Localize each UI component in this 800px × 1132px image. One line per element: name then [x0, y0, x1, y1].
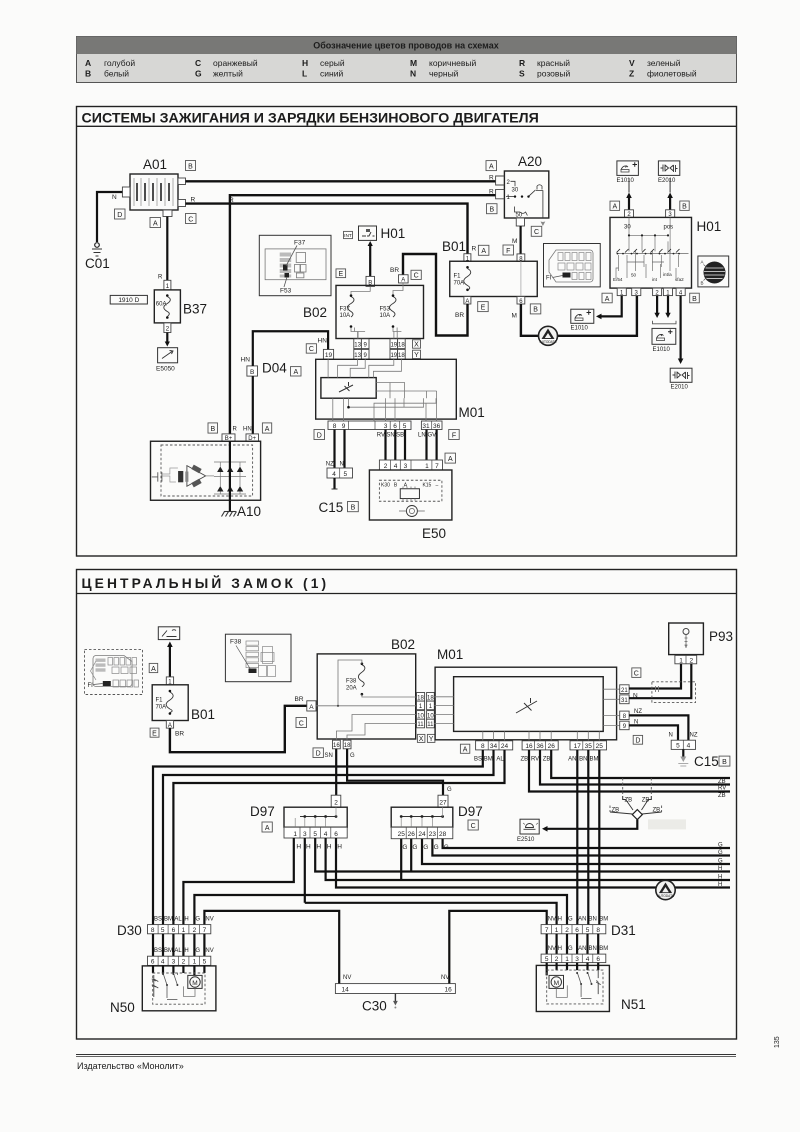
wire H: to D31-1: [305, 903, 557, 925]
svg-text:NV: NV: [548, 917, 556, 923]
svg-text:C01: C01: [85, 256, 110, 271]
ground (A10): [222, 512, 237, 517]
svg-text:17: 17: [574, 743, 582, 750]
svg-text:голубой: голубой: [104, 58, 135, 68]
svg-text:6: 6: [334, 831, 338, 838]
svg-text:2: 2: [193, 927, 197, 934]
fuse box B01 (engine bay): [442, 239, 541, 320]
fuse B01 (bottom section): [149, 663, 215, 737]
svg-text:N: N: [112, 194, 117, 201]
svg-text:E2510: E2510: [517, 837, 535, 843]
svg-text:6: 6: [575, 927, 579, 934]
in-line joint (dashed): [652, 682, 696, 703]
svg-text:G: G: [412, 844, 417, 851]
connector D30: [117, 917, 214, 966]
svg-text:A01: A01: [143, 157, 167, 172]
svg-text:D30: D30: [117, 923, 142, 938]
svg-text:H: H: [184, 917, 188, 923]
svg-text:M: M: [554, 980, 559, 987]
wire N to ground C01: [97, 192, 122, 242]
svg-text:B02: B02: [391, 637, 415, 652]
svg-text:1: 1: [425, 463, 429, 470]
svg-text:B37: B37: [183, 302, 207, 317]
svg-text:E: E: [338, 271, 343, 278]
svg-text:7: 7: [203, 927, 207, 934]
svg-text:A: A: [605, 296, 610, 303]
svg-text:R: R: [489, 189, 494, 196]
svg-text:G: G: [195, 69, 202, 79]
svg-text:5: 5: [203, 959, 207, 966]
svg-text:11: 11: [417, 722, 424, 728]
svg-text:16: 16: [445, 986, 453, 993]
svg-text:16: 16: [333, 743, 340, 749]
svg-text:1: 1: [293, 831, 297, 838]
svg-text:H: H: [718, 882, 722, 888]
door lock actuator N50: [110, 965, 216, 1015]
svg-text:26: 26: [408, 831, 416, 838]
svg-text:B: B: [85, 69, 91, 79]
fuse location inset F38: [225, 634, 291, 682]
svg-text:BM: BM: [590, 757, 599, 763]
svg-text:P93: P93: [709, 629, 733, 644]
svg-text:ZB: ZB: [653, 808, 661, 814]
fuse box B02 (bottom): [295, 637, 417, 740]
svg-text:8: 8: [481, 743, 485, 750]
svg-text:BR: BR: [295, 696, 304, 703]
svg-text:BN: BN: [589, 946, 597, 952]
svg-text:C15: C15: [319, 500, 344, 515]
battery symbol E1010 (mid): [571, 309, 594, 331]
svg-text:SB: SB: [396, 433, 404, 439]
svg-text:H: H: [302, 58, 308, 68]
svg-text:G: G: [195, 948, 200, 954]
svg-text:4: 4: [332, 471, 336, 478]
svg-text:NZ: NZ: [690, 733, 698, 739]
pin B (right top): [178, 178, 186, 185]
svg-text:RV: RV: [718, 786, 726, 792]
svg-text:H: H: [184, 948, 188, 954]
svg-text:4: 4: [161, 959, 165, 966]
wire ZB bus 2: [551, 750, 730, 778]
svg-text:18: 18: [417, 695, 424, 701]
svg-text:G: G: [718, 850, 723, 856]
svg-text:B: B: [722, 759, 727, 766]
svg-text:–: –: [436, 483, 439, 489]
svg-text:D04: D04: [262, 361, 287, 376]
svg-text:H: H: [337, 844, 342, 851]
B02 bottom pins 16 18: [313, 740, 355, 759]
svg-text:G: G: [195, 917, 200, 923]
wire G: B02-18 to D97C-27: [347, 749, 443, 795]
svg-text:1: 1: [555, 927, 559, 934]
svg-text:pos: pos: [664, 225, 674, 231]
svg-text:N: N: [634, 719, 638, 725]
svg-text:H: H: [316, 844, 321, 851]
svg-text:A: A: [612, 204, 617, 211]
svg-text:A: A: [701, 260, 704, 265]
svg-text:36: 36: [536, 743, 544, 750]
wire AN BN BM to D31: [576, 750, 578, 925]
pin C (right bottom): [178, 200, 186, 207]
svg-text:E/54: E/54: [613, 277, 623, 282]
door lock actuator N51: [536, 963, 645, 1012]
svg-text:A: A: [448, 456, 453, 463]
svg-text:BR: BR: [175, 731, 184, 738]
svg-text:K30: K30: [381, 483, 390, 489]
connector D04: [241, 338, 334, 377]
svg-text:6: 6: [151, 959, 155, 966]
wire NV: D30-7 to C30-14: [204, 911, 339, 984]
svg-text:25: 25: [398, 831, 406, 838]
wire B: A01 to A20 upper pin: [186, 180, 496, 182]
svg-text:G: G: [718, 842, 723, 848]
svg-text:G: G: [402, 844, 407, 851]
wire BR: B01 pin A to B02 pin A: [403, 254, 468, 336]
svg-text:20A: 20A: [346, 686, 357, 692]
svg-text:2: 2: [555, 956, 559, 963]
H bus wires: [315, 838, 730, 872]
svg-text:3: 3: [172, 959, 176, 966]
svg-text:Z: Z: [629, 69, 634, 79]
svg-text:фиолетовый: фиолетовый: [647, 69, 697, 79]
wires M01 to E50: [384, 430, 386, 461]
svg-text:E5050: E5050: [156, 366, 175, 373]
stator: [187, 466, 206, 487]
ignition block M01 (top): [291, 359, 485, 421]
connector C30: [335, 975, 455, 1014]
G bus wires: [443, 839, 730, 848]
svg-text:H: H: [718, 866, 722, 872]
svg-text:B: B: [351, 505, 356, 512]
svg-text:2: 2: [565, 927, 569, 934]
svg-text:A: A: [85, 58, 91, 68]
svg-text:R: R: [233, 427, 238, 433]
svg-text:BM: BM: [599, 946, 608, 952]
svg-text:8: 8: [151, 927, 155, 934]
svg-text:10A: 10A: [340, 313, 351, 319]
ground C01: [85, 243, 110, 271]
svg-text:NZ: NZ: [634, 709, 642, 715]
wires P93 to M01 pins 21/31: [629, 664, 681, 689]
svg-text:M: M: [410, 58, 417, 68]
svg-text:19: 19: [390, 342, 397, 348]
svg-text:H01: H01: [381, 226, 406, 241]
svg-text:D97: D97: [250, 804, 275, 819]
svg-text:25: 25: [596, 743, 604, 750]
diode bridge: [217, 467, 243, 492]
svg-text:D: D: [316, 751, 321, 758]
svg-text:F1: F1: [156, 698, 164, 704]
svg-text:ZB: ZB: [521, 757, 529, 763]
svg-text:A: A: [489, 163, 494, 170]
svg-text:ЦЕНТРАЛЬНЫЙ ЗАМОК (1): ЦЕНТРАЛЬНЫЙ ЗАМОК (1): [82, 574, 330, 591]
fuse location inset (F37/F53): [259, 235, 331, 295]
svg-text:5: 5: [403, 423, 407, 430]
lamp symbol E2010 (top): [658, 161, 680, 184]
svg-text:1: 1: [193, 959, 197, 966]
wire BM: M01-34 to D30-5: [163, 750, 494, 925]
svg-text:1: 1: [565, 956, 569, 963]
svg-text:3: 3: [384, 423, 388, 430]
svg-text:GV: GV: [428, 433, 437, 439]
svg-text:B: B: [682, 204, 687, 211]
svg-text:зеленый: зеленый: [647, 58, 681, 68]
svg-text:int: int: [652, 277, 658, 282]
svg-text:C: C: [195, 58, 201, 68]
connector columns B02/M01 (18 1 10 11): [417, 693, 435, 743]
svg-text:5: 5: [545, 956, 549, 963]
regulator / brushes: [178, 471, 183, 482]
connector D97 C: [391, 795, 483, 851]
courtesy lamp E2510: [517, 819, 539, 843]
svg-text:D: D: [117, 212, 122, 219]
svg-text:M: M: [512, 313, 517, 320]
svg-text:F38: F38: [346, 679, 357, 685]
svg-text:10: 10: [417, 713, 424, 719]
svg-text:19: 19: [390, 353, 397, 359]
svg-text:G: G: [568, 917, 573, 923]
svg-text:2: 2: [182, 959, 186, 966]
wire AL: M01-24 to D30-6: [173, 750, 504, 925]
svg-text:NV: NV: [205, 948, 213, 954]
svg-text:10: 10: [427, 713, 434, 719]
svg-text:F: F: [506, 248, 510, 255]
svg-text:M: M: [192, 980, 197, 987]
svg-text:K15: K15: [422, 483, 431, 489]
svg-text:D: D: [635, 738, 640, 745]
svg-text:1: 1: [679, 657, 683, 664]
svg-text:оранжевый: оранжевый: [213, 58, 258, 68]
svg-text:6: 6: [393, 423, 397, 430]
svg-text:LN: LN: [418, 433, 426, 439]
svg-text:16: 16: [525, 743, 533, 750]
svg-text:8: 8: [333, 423, 337, 430]
svg-text:D: D: [317, 432, 322, 439]
svg-text:18: 18: [398, 342, 405, 348]
svg-text:BN: BN: [579, 757, 587, 763]
svg-text:34: 34: [490, 743, 498, 750]
svg-text:21: 21: [621, 688, 628, 694]
svg-text:19: 19: [325, 352, 333, 359]
svg-text:HN: HN: [243, 427, 252, 433]
svg-text:INT: INT: [344, 233, 352, 239]
svg-text:A: A: [309, 704, 314, 711]
svg-text:BM: BM: [164, 917, 173, 923]
svg-text:NV: NV: [205, 917, 213, 923]
svg-text:BR: BR: [390, 267, 399, 274]
relay box inset (FI): [544, 244, 601, 287]
key switch P93: [669, 623, 733, 664]
svg-text:BS: BS: [154, 917, 162, 923]
svg-text:X: X: [414, 342, 419, 349]
svg-text:N: N: [669, 733, 673, 739]
svg-text:B: B: [489, 207, 494, 214]
svg-text:B02: B02: [303, 305, 327, 320]
wire BS: M01-8 to D30-8: [153, 750, 483, 925]
logo stamp on wire: [539, 326, 558, 345]
svg-text:AN: AN: [578, 917, 586, 923]
svg-text:E2010: E2010: [671, 385, 689, 391]
svg-text:A: A: [151, 666, 156, 673]
svg-text:B01: B01: [191, 707, 215, 722]
lamp symbol E2010 (lower): [670, 368, 692, 390]
wire B+ through A10 to ground: [229, 441, 231, 511]
svg-text:5: 5: [343, 471, 347, 478]
svg-text:11: 11: [427, 722, 434, 728]
svg-text:1: 1: [166, 283, 170, 290]
svg-text:E1010: E1010: [617, 178, 635, 184]
svg-text:9: 9: [342, 423, 346, 430]
arrow H01 pin4 down to E2010: [679, 296, 681, 360]
svg-text:A: A: [463, 747, 468, 754]
svg-text:50: 50: [631, 273, 637, 278]
fuse box B02 (top): [303, 267, 424, 339]
wire NV: C30-16 to D31-7: [449, 911, 546, 984]
ZB joint network: [610, 778, 686, 829]
svg-text:G: G: [447, 787, 452, 793]
svg-text:F38: F38: [230, 639, 242, 646]
wire R: alternator riser to A20 lower pin: [230, 195, 496, 434]
connector C15 (bottom): [671, 740, 730, 769]
svg-text:H01: H01: [697, 219, 722, 234]
wires M01 pins 8/9 to C15: [629, 715, 688, 740]
svg-text:F37: F37: [294, 240, 306, 247]
wire G long: D30-2 to D31-2: [194, 895, 567, 925]
wire HN: A10 D+ up through D04 to M01 pin 19: [253, 331, 328, 434]
boxed letter B: [186, 161, 196, 171]
svg-text:30: 30: [624, 225, 631, 231]
svg-text:NV: NV: [548, 946, 556, 952]
svg-text:4: 4: [586, 956, 590, 963]
svg-text:Обозначение цветов проводов на: Обозначение цветов проводов на схемах: [313, 41, 499, 51]
svg-text:Издательство «Монолит»: Издательство «Монолит»: [77, 1061, 184, 1071]
battery A01: [112, 157, 196, 228]
svg-text:розовый: розовый: [537, 69, 571, 79]
instrument panel switch H01: [602, 201, 721, 303]
arrows H01 pins 2,3 up: [628, 196, 630, 210]
svg-text:60A: 60A: [156, 302, 167, 308]
svg-text:G: G: [423, 844, 428, 851]
battery symbol E1010 (lower): [652, 328, 676, 353]
svg-text:10A: 10A: [380, 313, 391, 319]
svg-text:X: X: [419, 736, 424, 743]
svg-text:NV: NV: [441, 975, 449, 981]
svg-text:4: 4: [687, 743, 691, 750]
svg-text:26: 26: [548, 743, 556, 750]
svg-text:5: 5: [586, 927, 590, 934]
wire H01 pin1 to E1010 arrow: [599, 296, 622, 317]
svg-text:BM: BM: [484, 757, 493, 763]
svg-text:СИСТЕМЫ ЗАЖИГАНИЯ И ЗАРЯДКИ БЕ: СИСТЕМЫ ЗАЖИГАНИЯ И ЗАРЯДКИ БЕНЗИНОВОГО …: [82, 111, 539, 127]
svg-text:E2010: E2010: [658, 178, 676, 184]
wire arrow B02 to relay: [369, 245, 371, 277]
svg-text:AL: AL: [174, 948, 182, 954]
svg-text:C: C: [188, 216, 193, 223]
boxed letter C: [186, 214, 197, 224]
svg-text:L: L: [302, 69, 307, 79]
wire BR: B01 to B02 (bottom): [170, 706, 307, 752]
svg-text:4: 4: [394, 463, 398, 470]
svg-text:A: A: [265, 426, 270, 433]
svg-text:F: F: [452, 432, 456, 439]
boxed letter A: [150, 218, 161, 228]
intermittent relay symbol H01 (small): [344, 226, 406, 241]
svg-text:1: 1: [182, 927, 186, 934]
svg-text:серый: серый: [320, 58, 345, 68]
svg-text:31: 31: [621, 698, 628, 704]
svg-text:24: 24: [418, 831, 426, 838]
wire B37 to E5050: [166, 333, 168, 344]
svg-text:желтый: желтый: [213, 69, 243, 79]
svg-text:G: G: [718, 858, 723, 864]
svg-text:14: 14: [342, 986, 350, 993]
svg-text:H: H: [718, 874, 722, 880]
svg-text:2: 2: [384, 463, 388, 470]
svg-text:NZ: NZ: [326, 462, 334, 468]
svg-text:AN: AN: [568, 757, 576, 763]
svg-text:A: A: [153, 220, 158, 227]
connector C15 (top): [319, 462, 359, 516]
svg-text:G: G: [350, 753, 355, 759]
svg-text:Y: Y: [429, 736, 434, 743]
svg-text:2: 2: [689, 657, 693, 664]
svg-text:AL: AL: [174, 917, 182, 923]
svg-text:A: A: [265, 825, 270, 832]
connector D97 A: [250, 795, 347, 850]
svg-text:ZB: ZB: [625, 798, 633, 804]
svg-text:A: A: [401, 278, 405, 284]
label 1910 D: [110, 295, 147, 304]
svg-text:C: C: [634, 671, 639, 678]
svg-text:M01: M01: [459, 405, 485, 420]
connector rows B02/M01 (pins 13 9 19 18, X/Y): [354, 339, 421, 359]
svg-text:N: N: [339, 462, 343, 468]
pin N (left): [122, 187, 130, 197]
svg-text:коричневый: коричневый: [429, 58, 476, 68]
svg-text:A20: A20: [518, 154, 542, 169]
arrows H01 pins 2,1 down to E1010: [656, 296, 658, 314]
svg-text:AUTODATA: AUTODATA: [540, 340, 558, 344]
svg-text:AL: AL: [496, 757, 504, 763]
svg-text:BR: BR: [455, 312, 464, 319]
svg-text:H: H: [296, 844, 301, 851]
svg-text:B: B: [692, 296, 697, 303]
svg-text:7: 7: [545, 927, 549, 934]
svg-text:C: C: [309, 346, 314, 353]
svg-text:5: 5: [676, 743, 680, 750]
svg-text:BM: BM: [164, 948, 173, 954]
wire M: A20 to B01 pin 8: [519, 226, 521, 254]
svg-text:6: 6: [172, 927, 176, 934]
logo stamp (bottom): [656, 880, 675, 899]
svg-text:B: B: [188, 163, 193, 170]
svg-text:синий: синий: [320, 69, 343, 79]
svg-text:F1: F1: [454, 274, 462, 280]
svg-text:F37: F37: [340, 307, 351, 313]
svg-text:NV: NV: [343, 975, 351, 981]
svg-text:N50: N50: [110, 1000, 135, 1015]
svg-text:HN: HN: [241, 357, 251, 364]
switch symbol E5050: [156, 348, 178, 373]
wire SN: B02-16 to D97A-2: [335, 749, 337, 795]
svg-text:AUTODATA: AUTODATA: [657, 894, 675, 898]
wire A01 pin A down to B37: [166, 217, 168, 281]
svg-text:31: 31: [422, 423, 430, 430]
svg-text:E1010: E1010: [653, 347, 671, 353]
svg-text:6: 6: [596, 956, 600, 963]
svg-text:8: 8: [596, 927, 600, 934]
svg-text:M: M: [512, 238, 517, 245]
